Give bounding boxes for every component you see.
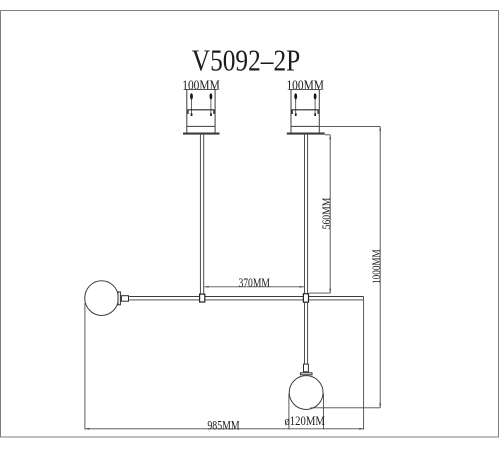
canopy 1 mounting bracket bbox=[188, 109, 215, 111]
canopy 1 dimension line 100MM bbox=[184, 88, 217, 90]
rod 1 (double line) bbox=[200, 135, 203, 294]
svg-text:560MM: 560MM bbox=[319, 197, 333, 229]
1000MM dimension vertical line bbox=[311, 126, 381, 408]
985MM extension line left bbox=[84, 303, 86, 430]
canopy 2 screw right bbox=[314, 93, 317, 116]
svg-text:100MM: 100MM bbox=[182, 78, 220, 93]
lower sphere bbox=[289, 376, 323, 410]
svg-text:1000MM: 1000MM bbox=[369, 249, 383, 284]
left sphere bbox=[85, 281, 119, 316]
canopy 2 mounting bracket bbox=[292, 109, 319, 111]
canopy 2 screw left bbox=[294, 93, 297, 116]
left sphere neck bbox=[121, 296, 128, 302]
svg-text:100MM: 100MM bbox=[286, 78, 324, 93]
junction box 2 bbox=[303, 294, 308, 303]
370MM dimension line bbox=[204, 286, 304, 288]
horizontal bar bbox=[129, 297, 363, 300]
canopy 1 base plate bbox=[183, 133, 220, 135]
left sphere collar bbox=[118, 292, 120, 305]
canopy 1 screw right bbox=[210, 93, 213, 116]
canopy 2 body bbox=[291, 89, 319, 132]
junction box 1 bbox=[200, 294, 205, 302]
extension line from canopy 2 to 1000MM dimension bbox=[319, 125, 380, 127]
rod 2 lower segment bbox=[305, 303, 308, 364]
560MM dimension vertical line bbox=[309, 135, 330, 293]
bottom dimension line 985MM bbox=[85, 428, 364, 430]
svg-text:370MM: 370MM bbox=[238, 276, 270, 290]
lower sphere collar bbox=[300, 373, 312, 375]
rod 2 upper (double line) bbox=[305, 135, 308, 294]
canopy 2 dimension line 100MM bbox=[289, 88, 322, 90]
svg-text:985MM: 985MM bbox=[207, 418, 239, 432]
svg-text:ø120MM: ø120MM bbox=[284, 414, 325, 428]
sphere diameter extension lines bbox=[288, 394, 290, 430]
canopy 2 base plate bbox=[287, 133, 325, 135]
canopy 1 body bbox=[187, 89, 215, 132]
985MM extension line right (from bar end) bbox=[363, 300, 365, 430]
canopy 1 screw left bbox=[190, 93, 193, 116]
lower sphere socket bbox=[304, 364, 309, 372]
svg-text:V5092–2P: V5092–2P bbox=[192, 43, 301, 77]
